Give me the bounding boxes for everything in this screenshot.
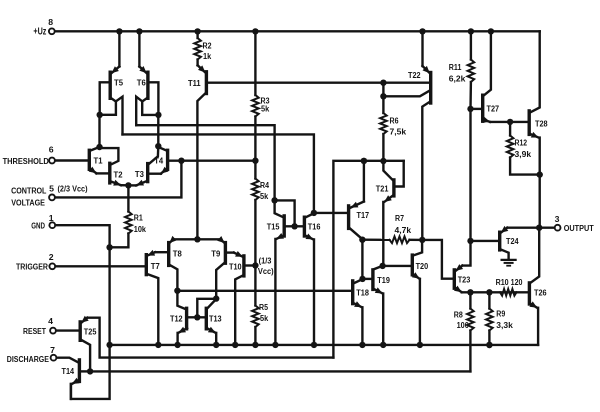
svg-text:VOLTAGE: VOLTAGE (11, 197, 45, 207)
svg-text:+Uz: +Uz (33, 26, 46, 37)
svg-text:R10 120: R10 120 (496, 277, 523, 287)
svg-text:8: 8 (48, 17, 53, 27)
svg-text:10k: 10k (134, 224, 146, 234)
svg-text:R7: R7 (395, 213, 404, 223)
svg-text:2: 2 (49, 252, 54, 262)
svg-text:T11: T11 (188, 78, 201, 88)
svg-text:T6: T6 (137, 78, 146, 88)
svg-text:T21: T21 (376, 184, 389, 194)
svg-text:RESET: RESET (23, 326, 47, 336)
svg-text:T22: T22 (408, 70, 421, 80)
svg-text:R5: R5 (259, 302, 268, 312)
svg-text:R11: R11 (449, 62, 462, 72)
svg-text:5k: 5k (260, 313, 268, 323)
svg-text:T18: T18 (356, 288, 369, 298)
svg-text:T4: T4 (154, 156, 163, 166)
svg-text:1: 1 (49, 213, 54, 223)
svg-text:T24: T24 (506, 236, 519, 246)
svg-text:T15: T15 (267, 222, 280, 232)
svg-text:T3: T3 (135, 169, 144, 179)
svg-text:R12: R12 (515, 138, 528, 148)
svg-text:6: 6 (49, 145, 54, 155)
svg-text:7: 7 (50, 345, 55, 355)
svg-text:T8: T8 (173, 249, 182, 259)
svg-text:T1: T1 (94, 156, 103, 166)
svg-text:3,9k: 3,9k (515, 149, 532, 159)
svg-text:5k: 5k (261, 104, 269, 114)
svg-text:Vcc): Vcc) (258, 266, 274, 276)
svg-text:T7: T7 (151, 261, 160, 271)
svg-text:T12: T12 (170, 314, 183, 324)
svg-text:THRESHOLD: THRESHOLD (3, 156, 49, 166)
svg-text:R4: R4 (260, 180, 269, 190)
svg-text:4: 4 (48, 316, 53, 326)
svg-text:R8: R8 (454, 310, 463, 320)
svg-text:R1: R1 (134, 213, 143, 223)
svg-text:T26: T26 (534, 288, 547, 298)
svg-text:T20: T20 (416, 261, 429, 271)
svg-text:T23: T23 (458, 274, 471, 284)
svg-text:T16: T16 (308, 222, 321, 232)
svg-text:5: 5 (49, 184, 54, 194)
svg-text:DISCHARGE: DISCHARGE (7, 354, 49, 364)
svg-text:T28: T28 (535, 119, 548, 129)
svg-text:T10: T10 (229, 262, 242, 272)
svg-text:T2: T2 (114, 170, 123, 180)
svg-text:T13: T13 (209, 314, 222, 324)
svg-text:T14: T14 (62, 366, 75, 376)
svg-text:T27: T27 (487, 104, 500, 114)
svg-text:TRIGGER: TRIGGER (16, 262, 49, 272)
svg-text:1k: 1k (203, 51, 211, 61)
svg-text:(2/3 Vcc): (2/3 Vcc) (58, 184, 88, 194)
svg-text:OUTPUT: OUTPUT (564, 223, 595, 233)
svg-text:(1/3: (1/3 (259, 255, 272, 265)
svg-text:R6: R6 (390, 116, 399, 126)
svg-text:100: 100 (457, 320, 469, 330)
svg-text:4,7k: 4,7k (395, 225, 412, 235)
svg-text:T17: T17 (357, 210, 370, 220)
svg-text:3,3k: 3,3k (496, 320, 513, 330)
svg-text:7,5k: 7,5k (390, 127, 407, 137)
svg-text:R9: R9 (496, 309, 505, 319)
svg-text:5k: 5k (260, 191, 268, 201)
svg-text:3: 3 (555, 214, 560, 224)
svg-text:R2: R2 (203, 41, 212, 51)
svg-text:T9: T9 (211, 249, 220, 259)
svg-text:T25: T25 (84, 326, 97, 336)
svg-text:GND: GND (31, 220, 45, 230)
svg-text:T5: T5 (114, 78, 123, 88)
svg-text:CONTROL: CONTROL (11, 185, 47, 195)
svg-text:6,2k: 6,2k (449, 74, 466, 84)
svg-text:T19: T19 (377, 275, 390, 285)
